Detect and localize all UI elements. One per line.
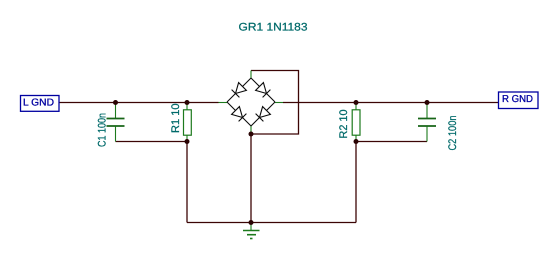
wire L GND to bridge AC1 [59,102,219,104]
svg-text:R1 10: R1 10 [170,104,182,134]
diode D3 bottom-left (bridge GR1) [227,102,251,126]
junction node R2/C2 bottom [354,139,359,144]
svg-text:C2 100n: C2 100n [447,116,459,151]
bridge rectifier GR1 pin AC1 [219,102,228,104]
port R GND [499,92,539,109]
diode D2 top-right (bridge GR1) [251,78,275,102]
svg-text:C1 100n: C1 100n [97,113,109,147]
wire bridge DC+ to DC- loop [251,71,299,135]
bridge rectifier GR1 pin DC- top [250,71,252,79]
ground rail [187,222,356,224]
capacitor C2 [418,103,436,142]
bridge rectifier GR1 pin AC2 [275,102,283,104]
junction node ground rail [249,220,254,225]
junction node C2/top wire [425,100,430,105]
junction node R2/top wire [354,100,359,105]
junction node R1/top wire [185,100,190,105]
junction node C1/top wire [113,100,118,105]
ground symbol [243,223,260,239]
diode D4 bottom-right (bridge GR1) [251,102,275,126]
wire R2 bottom down to ground rail [355,142,357,223]
junction node R1/C1 bottom [185,139,190,144]
junction node bridge DC [249,132,254,137]
wire bridge DC down to ground rail [250,134,252,223]
wire R1 bottom down to ground rail [186,142,188,223]
diode D1 top-left (bridge GR1) [227,78,251,102]
svg-text:R2 10: R2 10 [338,110,350,139]
svg-text:GR1 1N1183: GR1 1N1183 [239,22,308,34]
resistor R2 [352,103,360,142]
svg-text:L GND: L GND [23,98,54,109]
bridge rectifier GR1 pin DC+ bottom [250,126,252,134]
capacitor C1 [107,103,125,142]
svg-text:R GND: R GND [502,94,533,105]
wire C1 bottom to R1 bottom [116,141,188,143]
resistor R1 [184,103,192,142]
wire bridge AC2 to R GND [283,102,499,104]
wire C2 bottom to R2 bottom [356,141,427,143]
port L GND [21,96,60,112]
